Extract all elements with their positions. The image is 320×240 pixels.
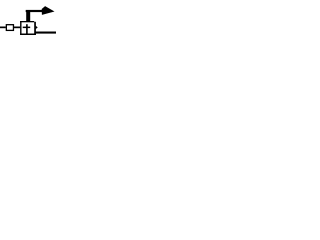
block B2 bottom edge [20, 34, 36, 36]
block B1 [6, 25, 13, 31]
block B2 left edge [20, 21, 21, 35]
block B2 right edge bar [34, 22, 36, 35]
plus vertical stroke [26, 24, 28, 34]
bottom output wire [35, 32, 56, 34]
output arrowhead [36, 26, 38, 29]
top output wire [26, 10, 43, 12]
branch riser bar [26, 12, 30, 22]
block B2 top edge [20, 21, 34, 22]
big arrowhead [42, 6, 55, 15]
wire B1 to B2 [14, 27, 20, 29]
plus horizontal stroke [23, 27, 31, 29]
wire input [0, 27, 6, 29]
